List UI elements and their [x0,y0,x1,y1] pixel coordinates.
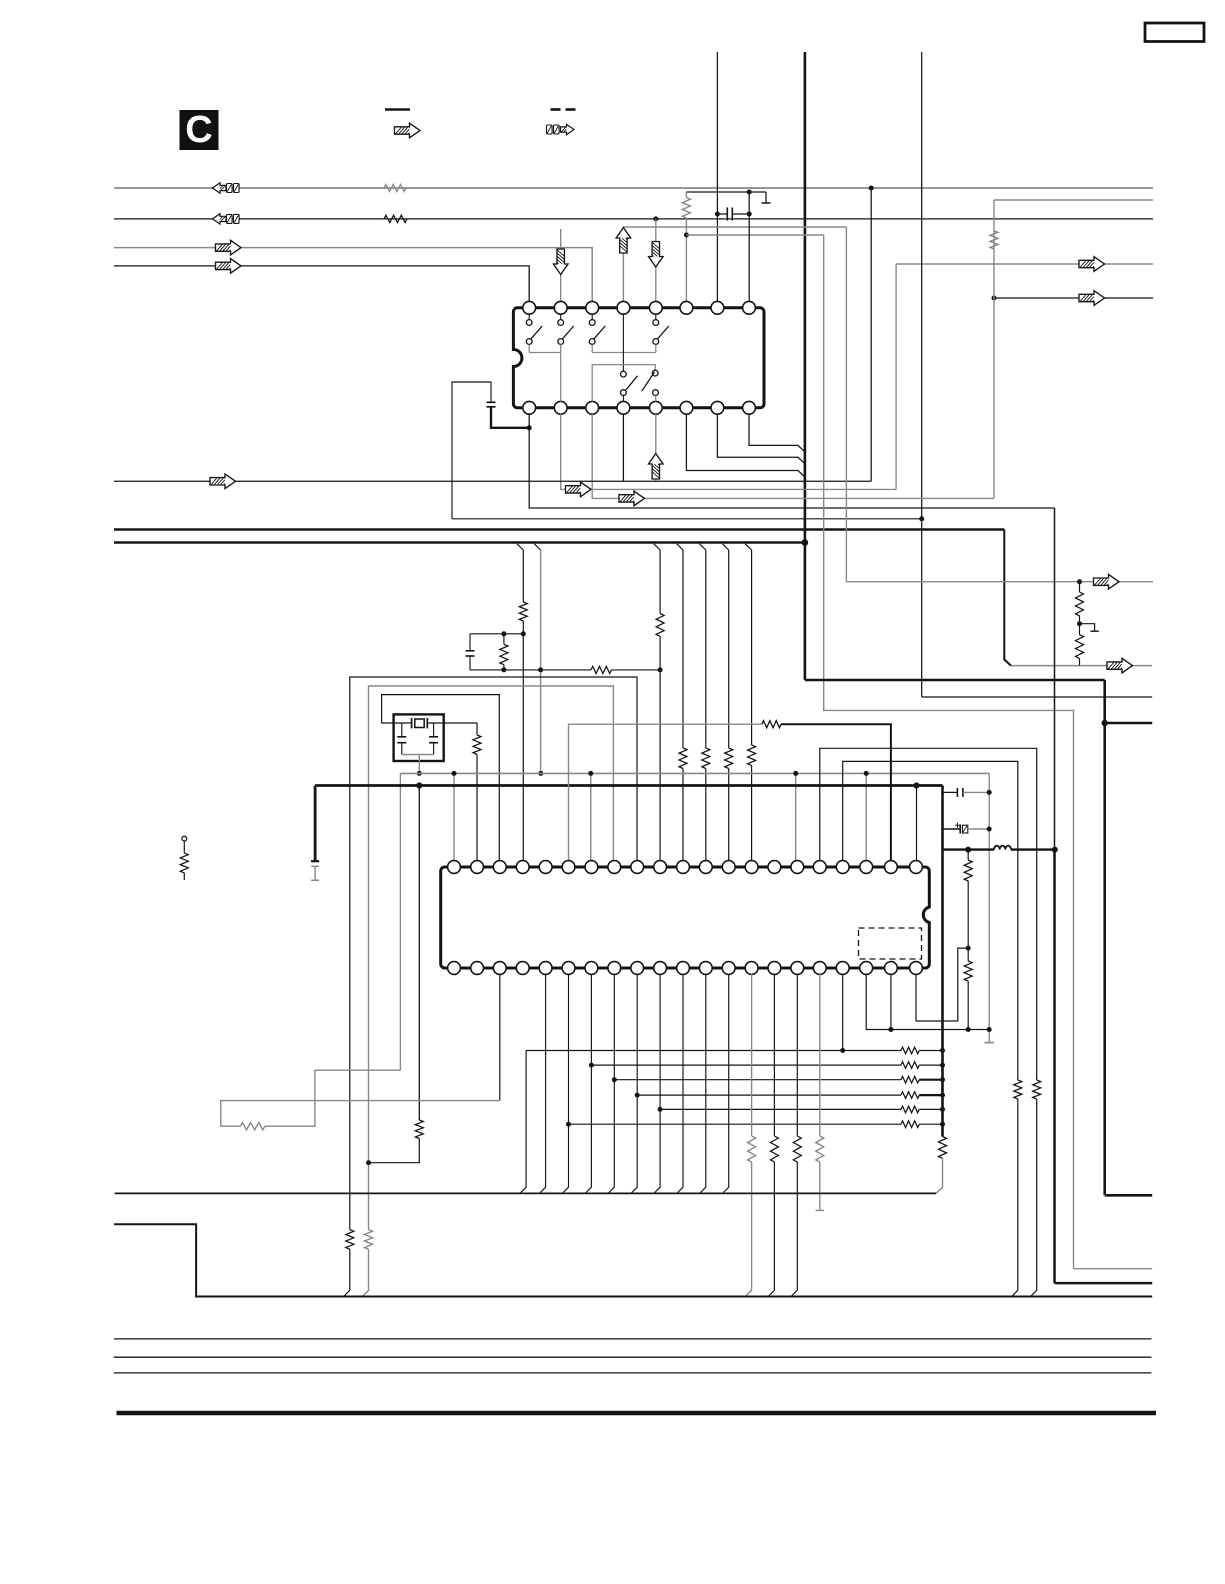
wire H4 feedback [637,1092,945,1099]
wire IC2 pin-b13 drop [723,974,729,1193]
wire IC2 pin18 net [843,761,1018,1080]
junction n192 [747,190,752,195]
wire net-b drop [824,235,1074,1269]
capacitor C2 [452,382,496,519]
bus A drop [1004,530,1011,666]
junction busF/x419 [416,782,422,788]
IC2 top pins [448,861,923,874]
resistor R24 [240,1123,265,1130]
IC1 switch S4 [653,314,669,353]
capacitor C7 [943,788,990,797]
wire IC2 pin-b20 stub [890,974,892,1030]
wire n633 [470,633,523,635]
wire vertical x921 [921,52,923,697]
bus line B [114,541,805,544]
bus b1 net exit [1055,1282,1153,1285]
junction n518/x921 [919,516,924,521]
wire switch b1 net [529,414,1054,508]
net1 label 00 [227,184,240,193]
IC1 switch S2 [558,314,574,353]
junction R3/net-b [684,233,689,238]
wire node n192 [686,191,766,193]
wire net6 right segment [896,263,1153,265]
junction net2/pin5 [653,216,658,221]
wire H2 feedback [591,1062,945,1069]
arrow up on b5 stub [649,454,664,480]
wire arrow net 581 [1080,581,1154,583]
bus B1 lower elbow [805,679,1105,682]
wire H6 feedback [569,1121,946,1128]
resistor R21 [1076,616,1084,666]
arrow down to switch pin5 [649,242,664,268]
wire R17 to pin20 [781,724,891,861]
wire IC2 pin-b8 drop [608,974,617,1193]
wire IC2 pin-b3 net [221,974,500,1126]
bus B1 bottom exit [1105,1194,1153,1197]
junction x540/gnd [538,771,543,776]
junction C1 left [715,212,720,217]
legend solid-line symbol [385,108,410,111]
bus line D [115,1192,936,1194]
capacitor C8 electrolytic [943,823,990,834]
bus line A [114,528,1004,531]
junction gnd/pin7 [588,771,593,776]
junction R20/R21 [1077,621,1082,626]
resistor R14 [473,723,481,861]
wire R16 to busD [936,1158,943,1193]
wire crystal gnd [402,755,434,774]
crystal X1 case [394,714,444,761]
wire IC2 pin-b11 drop [677,974,683,1193]
wire net3 to switch pin3 [114,248,592,302]
IC1 wire S1-S2 common [529,353,561,402]
IC1 wire pin4 to S5 [622,314,624,372]
bus line E step [114,1224,1152,1296]
legend bus-signal glyphs 00 [547,125,560,134]
wire net2 horizontal [114,218,1153,220]
wire busA exit [1011,665,1152,667]
arrow on net2 [213,214,227,224]
wire n518 [452,518,922,520]
junction pin-b20/n1029 [888,1027,893,1032]
wire gray drop x540 [540,550,542,773]
wire IC2 pin-b21 net [916,948,968,1021]
wire b1 net drop thick [1053,850,1056,1284]
junction C8/x989 [987,827,992,832]
net2 label 00 [227,214,240,223]
IC1 switch S6 [642,370,659,401]
rail line 3 [114,1372,1152,1374]
wire IC2 pin-b17 net [816,974,825,1210]
wire H3 feedback [614,1076,945,1083]
junction net581/Rchain [1077,579,1082,584]
wire IC2 pin-b10 drop [654,974,663,1193]
wire to IC2 pin11 [682,550,684,861]
wire net5 right segment [994,199,1153,201]
resistor R12 [500,634,508,670]
junction net7/R5 [992,296,997,301]
wire busF drop x419 [418,786,420,1121]
capacitor C6 to ground [311,786,319,881]
junction x368 [366,1160,371,1165]
junction crystal gnd [417,771,422,776]
wire osc loop inner [382,695,500,861]
bus stub right [1105,722,1153,725]
wire b1 net drop [1054,508,1056,850]
inductor L1 [994,846,1011,850]
wire IC2 pin6 net [569,724,762,861]
junction gnd/pin19 [864,771,869,776]
wire IC2 pin-b9 drop [631,974,640,1193]
wire net1 horizontal [114,187,1153,189]
IC1 wire S3-S4 common [592,352,656,354]
wire gnd stub IC2 pin16 [795,773,797,861]
resistor R11 [748,745,756,766]
wire net7 right segment [994,297,1153,299]
arrow on net4 [216,259,242,274]
wire net-a drop [846,227,1079,582]
capacitor C5 [429,723,438,755]
wire C2 to bus [491,407,529,428]
wire to IC2 pin12 [705,550,707,861]
IC1 top pins [523,301,756,314]
rail line 2 [114,1356,1152,1358]
resistor R6 [519,602,527,621]
resistor R10 [725,748,733,769]
IC1 switch S5 [621,371,638,401]
junction R23/n1029 [966,1027,971,1032]
arrow on busA exit [1107,658,1133,673]
junction busB1 stub [1102,720,1108,726]
wire R19 to busE [1012,1099,1018,1297]
IC1 wire pin b3 riser [592,365,655,402]
wire switch b8 net [749,414,805,452]
bus B1 drop right [1103,680,1106,1195]
rail line 1 [114,1338,1152,1340]
IC1 switch S3 [589,314,605,353]
bus B jog 6 [722,544,728,550]
wire H1 drop [520,1051,526,1194]
junction C2/pin-b1 wire [527,425,532,430]
resistor R4 open stub [180,836,188,880]
wire gnd stub IC2 pin1 [453,773,455,861]
junction C1 right [747,212,752,217]
resistor R13 [591,666,611,673]
crystal X1 [382,718,477,728]
arrow on b2 net [566,482,592,497]
bus vertical B1 [804,52,807,680]
wire H5 feedback [660,1106,945,1113]
wire IC2 pin-b12 drop [700,974,706,1193]
wire n697 [922,696,1152,698]
resistor R8 [679,748,687,769]
wire busF pin21 stub [916,786,918,862]
ground stub 1 [762,192,771,203]
ground terminal right [984,1042,994,1044]
wire IC2 pin-b5 drop [539,974,545,1193]
IC1 bottom pins [523,401,756,414]
junction n1029/x989 [987,1027,992,1032]
wire R18 to busE [1031,1099,1037,1297]
wire IC2 pin-b18 stub [842,974,844,1051]
bus B jog 5 [700,544,706,550]
junction C7/x989 [987,790,992,795]
junction net1/x871 [869,186,874,191]
junction R6 bottom [521,631,526,636]
wire net-b horizontal [686,234,823,236]
wire switch pin6 stub [685,235,687,302]
wire switch b3 net [592,414,994,498]
resistor R22 [964,850,972,949]
rail bus heavy [117,1411,1157,1416]
wire switch pin5 stub [655,219,657,302]
arrow on net7 [1079,291,1105,306]
resistor R7 [656,614,664,637]
wire R15 to x368 [369,1139,420,1163]
bus F right drop [941,786,944,1137]
resistor R9 [702,748,710,769]
wire gnd left drop [399,773,401,1070]
analog switch IC1 body [513,308,764,408]
wire inductor net [943,848,1055,850]
wire IC2 pin-b19 net [866,974,989,1030]
resistor R20 [1076,582,1084,616]
arrow on net3 [216,240,242,255]
wire switch pin8 stub [748,192,750,302]
bus B jog 1 [517,544,523,550]
legend dashed-line symbol [551,108,576,111]
legend signal arrow [395,123,421,138]
microcontroller IC2 body [441,867,930,968]
resistor R15 [415,1120,423,1139]
wire switch b2 riser [895,264,897,489]
arrow on net6 [1079,257,1105,272]
resistor R17 [762,721,781,728]
bus B jog 2 [534,544,540,550]
resistor R23 [964,948,972,1029]
wire to IC2 pin10 [659,550,661,861]
resistor R25 [344,1230,354,1297]
arrow on b3 net [619,491,645,506]
arrow on net1 [213,183,227,193]
power bus F [315,784,942,787]
wire net-arrow-left [114,480,871,482]
wire switch b2 net [561,414,896,489]
IC2 bottom pins [448,962,923,975]
capacitor C3 [466,634,475,670]
wire osc loop mid [369,686,614,1230]
wire IC2 pin-b6 drop [562,974,571,1193]
wire IC2 pin-b7 drop [585,974,594,1193]
junction R22/R23 [966,946,971,951]
wire switch b7 net [717,414,805,464]
resistor R16 [939,1137,947,1159]
arrow on left net [210,474,236,489]
junction R7/n670 [658,667,663,672]
bus B jog 3 [654,544,660,550]
bus B jog 4 [677,544,683,550]
wire IC2 pin-b14 net [745,974,755,1297]
junction R12 top [501,631,506,636]
junction L1 right [1052,847,1058,853]
wire n670 left [470,669,591,671]
IC2 internal dashed block [859,928,922,959]
resistor R26 [362,1230,372,1297]
capacitor C4 [397,723,406,755]
wire switch b5 stub [655,414,657,481]
arrow on net 581 [1094,574,1120,589]
resistor R2 [384,215,407,222]
resistor R3 [682,192,690,235]
wire n670 right [611,669,660,671]
arrow up to switch pin4 [616,228,631,254]
junction gnd/pin1 [452,771,457,776]
wire vertical to switch pin7 [716,52,718,302]
wire IC2 pin-b16 net [791,974,801,1297]
wire osc loop outer [350,677,637,1230]
junction R12 bottom [501,667,506,672]
resistor R1 [384,184,406,191]
wire gray busE exit [1074,1268,1153,1270]
junction busB/busB1 [802,539,809,546]
wire switch b3 riser [993,200,995,498]
wire IC2 pin-b15 net [768,974,778,1297]
wire gnd stub IC2 pin19 [865,773,867,861]
wire to IC2 pin14 [751,550,753,861]
wire switch b4 stub [622,414,624,481]
junction busF/pin21 [913,782,919,788]
wire switch b6 net [686,414,805,477]
svg-text:C: C [185,109,212,151]
wire R24 return [265,1070,401,1126]
junction gnd/pin16 [793,771,798,776]
junction x540/n670 [538,667,543,672]
arrow down to switch pin2 [553,249,568,275]
wire net4 to switch pin1 [114,266,529,302]
wire ground rail [400,772,989,774]
sheet label C [180,109,219,151]
wire gnd right drop [988,773,990,1042]
wire gnd stub IC2 pin7 [590,773,592,861]
bus B jog 7 [745,544,751,550]
IC1 switch S1 [526,314,542,353]
junction L1 left [965,847,971,853]
resistor R19 [1014,1080,1022,1099]
legend small arrow [561,124,575,134]
wire to IC2 pin4 [522,550,524,861]
wire to IC2 pin13 [728,550,730,861]
wire stub switch pin2 [560,229,562,302]
wire x871 riser [870,188,872,481]
resistor R18 [1033,1080,1041,1099]
wire IC2 pin17 net [820,748,1037,1080]
resistor R5 [990,231,998,249]
wire net-a [623,227,846,302]
wire H1 feedback [526,1047,945,1054]
sheet reference box [1145,23,1204,42]
ground stub 2 [1080,624,1099,632]
capacitor C1 [717,208,749,221]
